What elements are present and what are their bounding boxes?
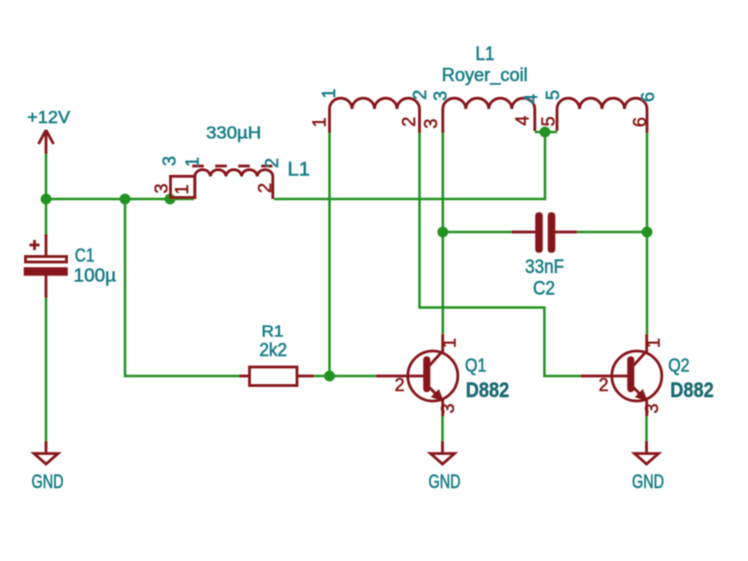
- wire royer pin3 to Q1 collector: [442, 133, 445, 334]
- svg-text:GND: GND: [632, 472, 664, 493]
- svg-text:1: 1: [183, 157, 203, 167]
- transistor Q1: [376, 334, 458, 417]
- svg-text:2: 2: [262, 158, 282, 168]
- L1 330uH ref label: [288, 160, 311, 181]
- svg-text:4: 4: [521, 94, 541, 104]
- Q2 value label D882: [670, 379, 714, 402]
- svg-text:Q1: Q1: [465, 355, 486, 376]
- R1 value label: [259, 339, 287, 360]
- L1 330uH pin number 3: [152, 183, 172, 193]
- Royer pin name 4: [521, 94, 541, 104]
- svg-text:Q2: Q2: [668, 355, 689, 376]
- transformer L1 Royer_coil: [330, 98, 648, 133]
- Royer pin name 6: [638, 92, 658, 102]
- svg-text:R1: R1: [262, 323, 284, 340]
- svg-text:6: 6: [638, 92, 658, 102]
- ground GND C1: [32, 441, 64, 493]
- svg-text:2: 2: [399, 117, 419, 127]
- svg-text:D882: D882: [466, 379, 510, 402]
- Royer pin number 3: [421, 119, 441, 129]
- svg-text:3: 3: [160, 156, 180, 166]
- svg-text:C2: C2: [533, 278, 555, 300]
- wire C2 right: [577, 231, 647, 234]
- svg-text:5: 5: [539, 116, 559, 126]
- C1 value label: [74, 265, 117, 286]
- svg-text:1: 1: [172, 184, 192, 194]
- svg-text:2k2: 2k2: [259, 339, 287, 360]
- svg-text:GND: GND: [429, 472, 461, 493]
- Royer pin number 1: [310, 117, 330, 127]
- Royer pin number 2: [399, 117, 419, 127]
- svg-text:L1: L1: [476, 44, 495, 65]
- wire main rail left: [46, 198, 194, 201]
- Q1 pin number 1: [440, 338, 460, 348]
- C2 value label: [525, 256, 564, 278]
- wire +12V to rail: [45, 154, 48, 199]
- Q2 pin number 3: [642, 403, 662, 413]
- Royer pin number 6: [630, 117, 650, 127]
- svg-text:1: 1: [440, 338, 460, 348]
- R1 ref label: [262, 323, 284, 340]
- inductor L1 330uH: [171, 166, 273, 199]
- Royer_coil ref label L1: [476, 44, 495, 65]
- junction at 46,199: [41, 194, 52, 205]
- junction at 647,232: [642, 227, 653, 238]
- wire C1 bottom: [45, 298, 48, 441]
- svg-text:Royer_coil: Royer_coil: [442, 64, 528, 86]
- L1 330uH pin name 3: [160, 156, 180, 166]
- power flag +12V: [27, 107, 70, 154]
- Royer_coil value label: [442, 64, 528, 86]
- ground GND Q2: [632, 441, 664, 493]
- svg-text:6: 6: [630, 117, 650, 127]
- svg-text:33nF: 33nF: [525, 256, 564, 278]
- wire rail right of L1 to center tap: [274, 132, 545, 199]
- Q1 value label D882: [466, 379, 510, 402]
- Royer pin number 4: [513, 116, 533, 126]
- Q1 pin number 2: [395, 375, 405, 395]
- wire rail to C1 top: [45, 199, 48, 234]
- Q1 pin number 3: [438, 403, 458, 413]
- Q2 pin number 1: [644, 338, 664, 348]
- svg-text:2: 2: [599, 375, 609, 395]
- svg-text:5: 5: [543, 90, 563, 100]
- svg-text:1: 1: [644, 338, 664, 348]
- svg-text:1: 1: [319, 88, 339, 98]
- svg-text:3: 3: [642, 403, 662, 413]
- L1 330uH pin name 1: [183, 157, 203, 167]
- Royer pin number 5: [539, 116, 559, 126]
- wire R1 to Q1 base: [314, 375, 376, 378]
- svg-text:2: 2: [255, 183, 275, 193]
- svg-text:C1: C1: [75, 245, 95, 266]
- C1 ref label: [75, 245, 95, 266]
- Royer pin name 2: [410, 90, 430, 100]
- L1 330uH pin name 2: [262, 158, 282, 168]
- L1 330uH pin number 2: [255, 183, 275, 193]
- junction at 329,376: [324, 371, 335, 382]
- wire royer pin6 to Q2 collector: [646, 133, 649, 334]
- svg-text:3: 3: [431, 91, 451, 101]
- wire rail to R1: [125, 199, 239, 376]
- capacitor C1: [24, 234, 68, 298]
- junction at 170,199: [165, 194, 176, 205]
- svg-text:2: 2: [410, 90, 430, 100]
- L1 330uH pin number 1: [172, 184, 192, 194]
- svg-text:L1: L1: [288, 160, 311, 181]
- wire center tap pins 4-5: [535, 131, 557, 134]
- Q2 pin number 2: [599, 375, 609, 395]
- transistor Q2: [581, 334, 662, 417]
- svg-text:+12V: +12V: [27, 107, 70, 127]
- resistor R1: [239, 367, 314, 386]
- svg-text:3: 3: [152, 183, 172, 193]
- junction at 545,132 center tap: [540, 127, 551, 138]
- Q2 ref label: [668, 355, 689, 376]
- svg-text:3: 3: [438, 403, 458, 413]
- C2 ref label: [533, 278, 555, 300]
- Royer pin name 1: [319, 88, 339, 98]
- ground GND Q1: [429, 441, 461, 493]
- wire royer pin2 to Q2 base: [420, 133, 581, 376]
- Q1 ref label: [465, 355, 486, 376]
- svg-text:330µH: 330µH: [206, 123, 261, 143]
- svg-text:2: 2: [395, 375, 405, 395]
- Royer pin name 3: [431, 91, 451, 101]
- Royer pin name 5: [543, 90, 563, 100]
- wire royer pin1 down to base node: [328, 133, 331, 376]
- L1 330uH value label: [206, 123, 261, 143]
- svg-text:4: 4: [513, 116, 533, 126]
- junction at 443,232: [437, 227, 448, 238]
- svg-text:D882: D882: [670, 379, 714, 402]
- svg-text:100µ: 100µ: [74, 265, 117, 286]
- svg-text:3: 3: [421, 119, 441, 129]
- capacitor C2: [512, 213, 578, 253]
- wire Q2 emitter: [645, 417, 648, 442]
- svg-text:1: 1: [310, 117, 330, 127]
- svg-text:GND: GND: [32, 472, 64, 493]
- wire C2 left: [443, 231, 512, 234]
- junction at 125,199: [120, 194, 131, 205]
- wire Q1 emitter: [441, 417, 444, 442]
